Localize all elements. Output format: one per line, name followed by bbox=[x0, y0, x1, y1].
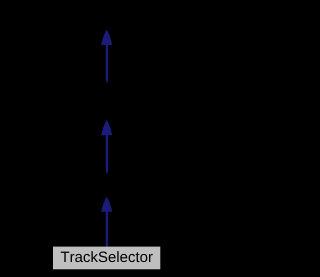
arrow (top inheritance edge) bbox=[101, 30, 112, 83]
inheritance graph: TrackSelector bbox=[0, 0, 213, 277]
node TrackSelector (box) bbox=[53, 247, 160, 270]
arrow (bottom inheritance edge) bbox=[101, 197, 112, 247]
arrow (middle inheritance edge) bbox=[101, 120, 112, 174]
node TrackSelector (label) bbox=[61, 251, 153, 262]
